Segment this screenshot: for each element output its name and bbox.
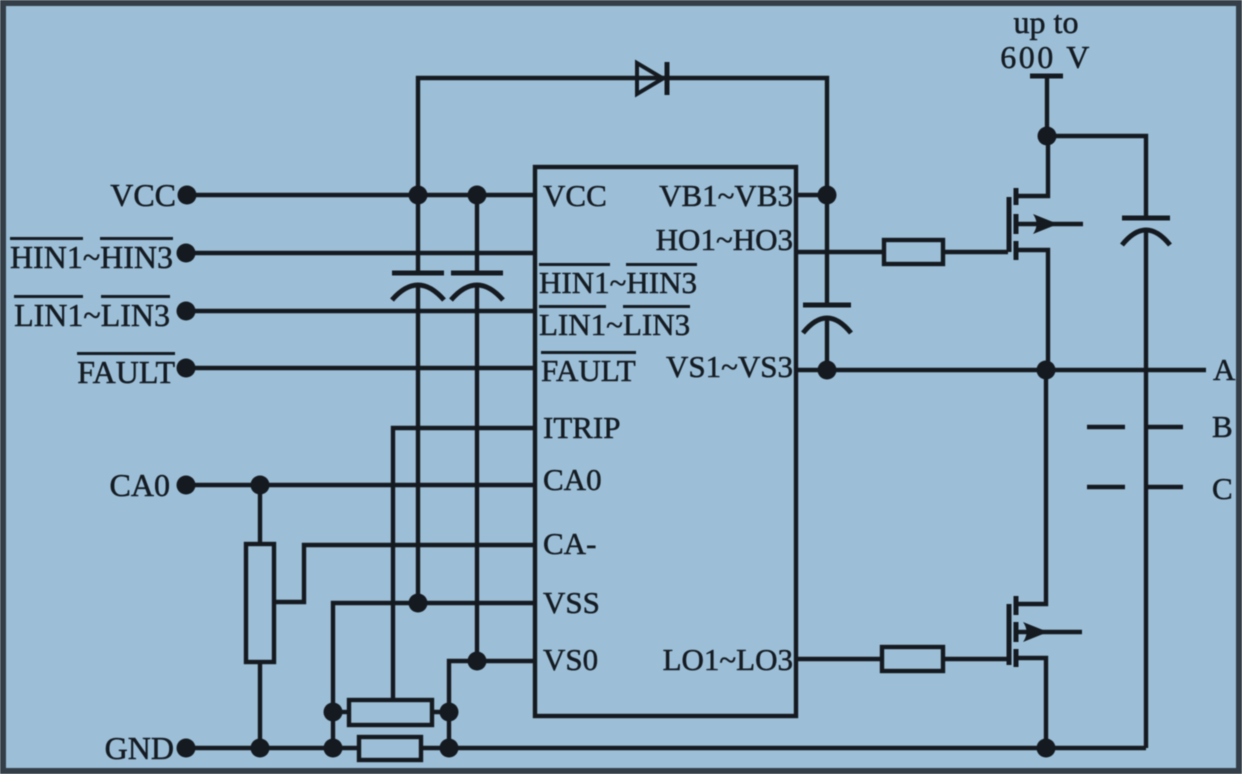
wire HIN rail — [186, 251, 535, 255]
resistor R2 — [333, 700, 449, 725]
resistor R1 — [246, 485, 274, 748]
wire VSS — [333, 603, 535, 748]
node label CA0 — [110, 469, 170, 501]
node VCC-rail junction 2 — [468, 186, 487, 205]
node VB junction — [818, 186, 837, 205]
power terminal 600V — [1030, 76, 1063, 136]
node label FAULT — [77, 352, 175, 384]
node label A — [1213, 354, 1235, 385]
pin label FAULT — [541, 351, 636, 382]
terminal dot HIN — [177, 244, 196, 263]
terminal dot GND — [177, 739, 196, 758]
node label C — [1212, 473, 1233, 504]
node GND junction M2 source — [1037, 739, 1056, 758]
wire HO to gate — [943, 250, 1008, 254]
pin label VB1~VB3 — [659, 180, 793, 211]
label 600 V — [989, 41, 1103, 73]
wire CA- tap — [274, 545, 535, 602]
wire ITRIP — [393, 428, 535, 700]
node VS0 junction cap2 — [468, 652, 487, 671]
node label LIN1~LIN3 — [14, 295, 170, 327]
wire phase C stub right — [1146, 485, 1183, 489]
label up to — [996, 6, 1096, 38]
terminal dot CA0 — [177, 476, 196, 495]
pin label ITRIP — [543, 412, 621, 443]
pin label CA- — [543, 528, 596, 559]
node VS junction — [818, 361, 837, 380]
capacitor C2 — [451, 195, 503, 661]
wire supply to capacitor C4 — [1047, 136, 1146, 218]
node phase A junction — [1037, 361, 1056, 380]
wire VCC rail — [187, 193, 535, 197]
capacitor C3 — [803, 195, 851, 370]
terminal dot LIN — [177, 302, 196, 321]
node label HIN1~HIN3 — [10, 237, 173, 269]
diode D1 — [637, 62, 667, 95]
node label GND — [105, 732, 174, 764]
node VSS junction cap1 — [409, 594, 428, 613]
node GND junction VS0 — [440, 739, 459, 758]
pin label CA0 — [543, 464, 602, 495]
node label VCC — [110, 179, 176, 211]
resistor R3 — [884, 240, 943, 264]
wire VS0 — [449, 661, 535, 748]
node R2 left junction — [324, 703, 343, 722]
terminal dot FAULT — [177, 359, 196, 378]
wire phase B stub left — [1087, 425, 1125, 429]
wire LIN rail — [186, 309, 535, 313]
pin label HIN1~HIN3 — [539, 263, 697, 294]
transistor Q2 low-side MOSFET — [1009, 370, 1082, 748]
pin label VCC — [543, 180, 607, 211]
IC U1 box — [535, 167, 796, 716]
node supply junction — [1038, 127, 1057, 146]
node R2 right junction — [440, 703, 459, 722]
capacitor C4 — [1122, 218, 1170, 748]
node CA0 junction — [251, 476, 270, 495]
terminal dot VCC — [178, 186, 197, 205]
resistor R4 — [882, 647, 943, 671]
pin label VSS — [543, 587, 600, 618]
node label B — [1212, 411, 1233, 442]
wire VB pin — [796, 193, 827, 197]
wire LO to gate — [943, 657, 1008, 661]
pin label LIN1~LIN3 — [539, 305, 690, 336]
wire top loop from VCC rail to VB rail — [418, 78, 827, 195]
node GND junction VSS — [324, 739, 343, 758]
wire GND rail right — [421, 746, 1146, 750]
node VCC-rail junction 1 — [409, 186, 428, 205]
wire phase C stub left — [1087, 485, 1125, 489]
capacitor C1 — [392, 195, 444, 603]
wire FAULT rail — [186, 366, 535, 370]
wire VS phase A line — [796, 368, 1206, 372]
wire LO rail — [796, 657, 882, 661]
pin label HO1~HO3 — [656, 224, 793, 255]
wire CA0 rail — [186, 483, 535, 487]
wire HO rail — [796, 250, 884, 254]
wire GND rail left — [186, 746, 359, 750]
wire phase B stub right — [1146, 425, 1183, 429]
pin label VS1~VS3 — [666, 351, 793, 382]
transistor Q1 high-side MOSFET — [1009, 136, 1083, 370]
node GND junction R1 — [251, 739, 270, 758]
pin label VS0 — [543, 644, 598, 675]
resistor R5 — [359, 737, 421, 760]
pin label LO1~LO3 — [663, 644, 793, 675]
